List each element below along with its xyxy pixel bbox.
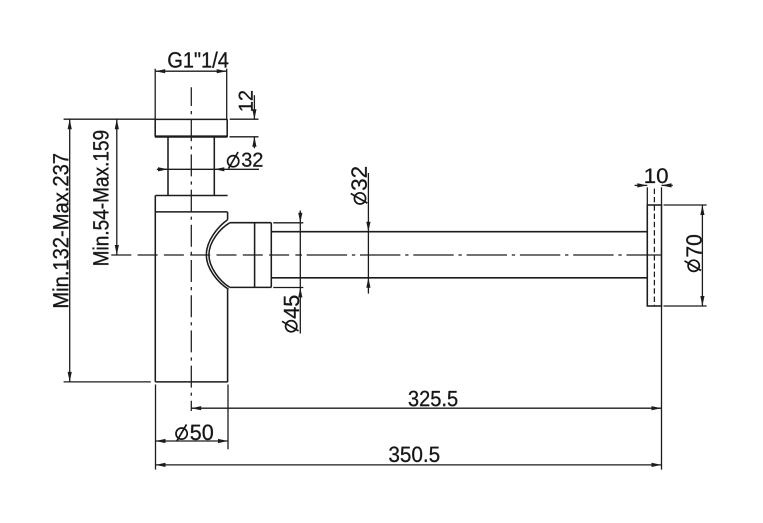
dim G1"1/4 extension lines — [154, 69, 156, 120]
dim 12 leaders — [253, 95, 255, 119]
label d70: phi symbol — [685, 260, 702, 271]
inlet pipe d32 — [167, 137, 169, 196]
dim 10 extension lines — [646, 187, 648, 204]
dim d45 dimension line — [299, 211, 301, 334]
label G1"1/4 — [168, 52, 228, 68]
wall flange vertical centerline — [653, 189, 655, 306]
extension row at flange bottom — [230, 136, 259, 138]
dim Min.54-Max.159 dimension line — [116, 119, 118, 255]
label d50: digits — [191, 425, 213, 441]
dim d70 extension lines — [664, 204, 707, 206]
label 10 — [645, 168, 667, 183]
outlet horn inner curve — [209, 223, 230, 287]
right extension from wall flange — [661, 306, 663, 470]
body collar — [155, 195, 227, 197]
arrows 12 — [252, 109, 256, 119]
dim 325.5 dimension line — [191, 407, 661, 409]
label 350.5 — [389, 447, 439, 463]
outlet fitting nut d45 — [230, 222, 272, 224]
arrows 350.5 — [156, 463, 166, 467]
body vertical centerline — [190, 87, 192, 411]
label d70: digits — [686, 235, 702, 257]
extension row at flange top — [64, 118, 156, 120]
extension row at body bottom — [64, 381, 151, 383]
dim d32 outlet dimension line — [367, 173, 369, 294]
label d32 inlet: digits — [242, 153, 262, 167]
label Min.54-Max.159 — [93, 131, 109, 265]
arrows G1"1/4 — [155, 69, 165, 73]
arrows d50 — [156, 439, 166, 443]
label 12 — [239, 91, 253, 111]
dim d50 extension lines — [155, 385, 157, 470]
dim d45 extension lines — [273, 222, 303, 224]
outlet pipe axis centerline right part — [302, 254, 662, 256]
outlet horn outer curve — [206, 220, 228, 289]
label d32 inlet: phi symbol — [228, 152, 239, 169]
dim G1"1/4 dimension line — [155, 70, 227, 72]
wall flange d70 — [647, 205, 661, 306]
label 325.5 — [409, 391, 458, 407]
arrows d45 — [298, 213, 302, 223]
arrows Min.54 — [115, 119, 119, 129]
dim d70 dimension line — [701, 205, 703, 306]
label d32 outlet: digits — [351, 167, 367, 190]
dim 350.5 dimension line — [156, 464, 662, 466]
outlet pipe d32 — [271, 231, 647, 233]
dim d32 inlet dimension line — [157, 168, 259, 170]
arrows 10 — [637, 183, 647, 187]
label Min.132-Max.237 — [52, 154, 68, 307]
trap body cup d50 — [154, 196, 156, 382]
outlet pipe axis centerline left part — [111, 254, 302, 256]
dim Min.132-Max.237 dimension line — [69, 119, 71, 382]
label d32 outlet: phi symbol — [351, 193, 368, 204]
dim d50 dimension line — [156, 440, 229, 442]
label d45: digits — [284, 296, 299, 319]
label d45: phi symbol — [282, 321, 299, 332]
dim 10 dimension line — [635, 184, 648, 186]
arrows 325.5 — [191, 406, 201, 410]
arrows d32 outlet — [366, 222, 370, 232]
arrows d32 inlet — [158, 167, 168, 171]
top flange (G1 1/4 connector) — [154, 119, 156, 137]
arrows Min.132 — [68, 119, 72, 129]
arrows d70 — [700, 205, 704, 215]
label d50: phi symbol — [176, 424, 187, 441]
